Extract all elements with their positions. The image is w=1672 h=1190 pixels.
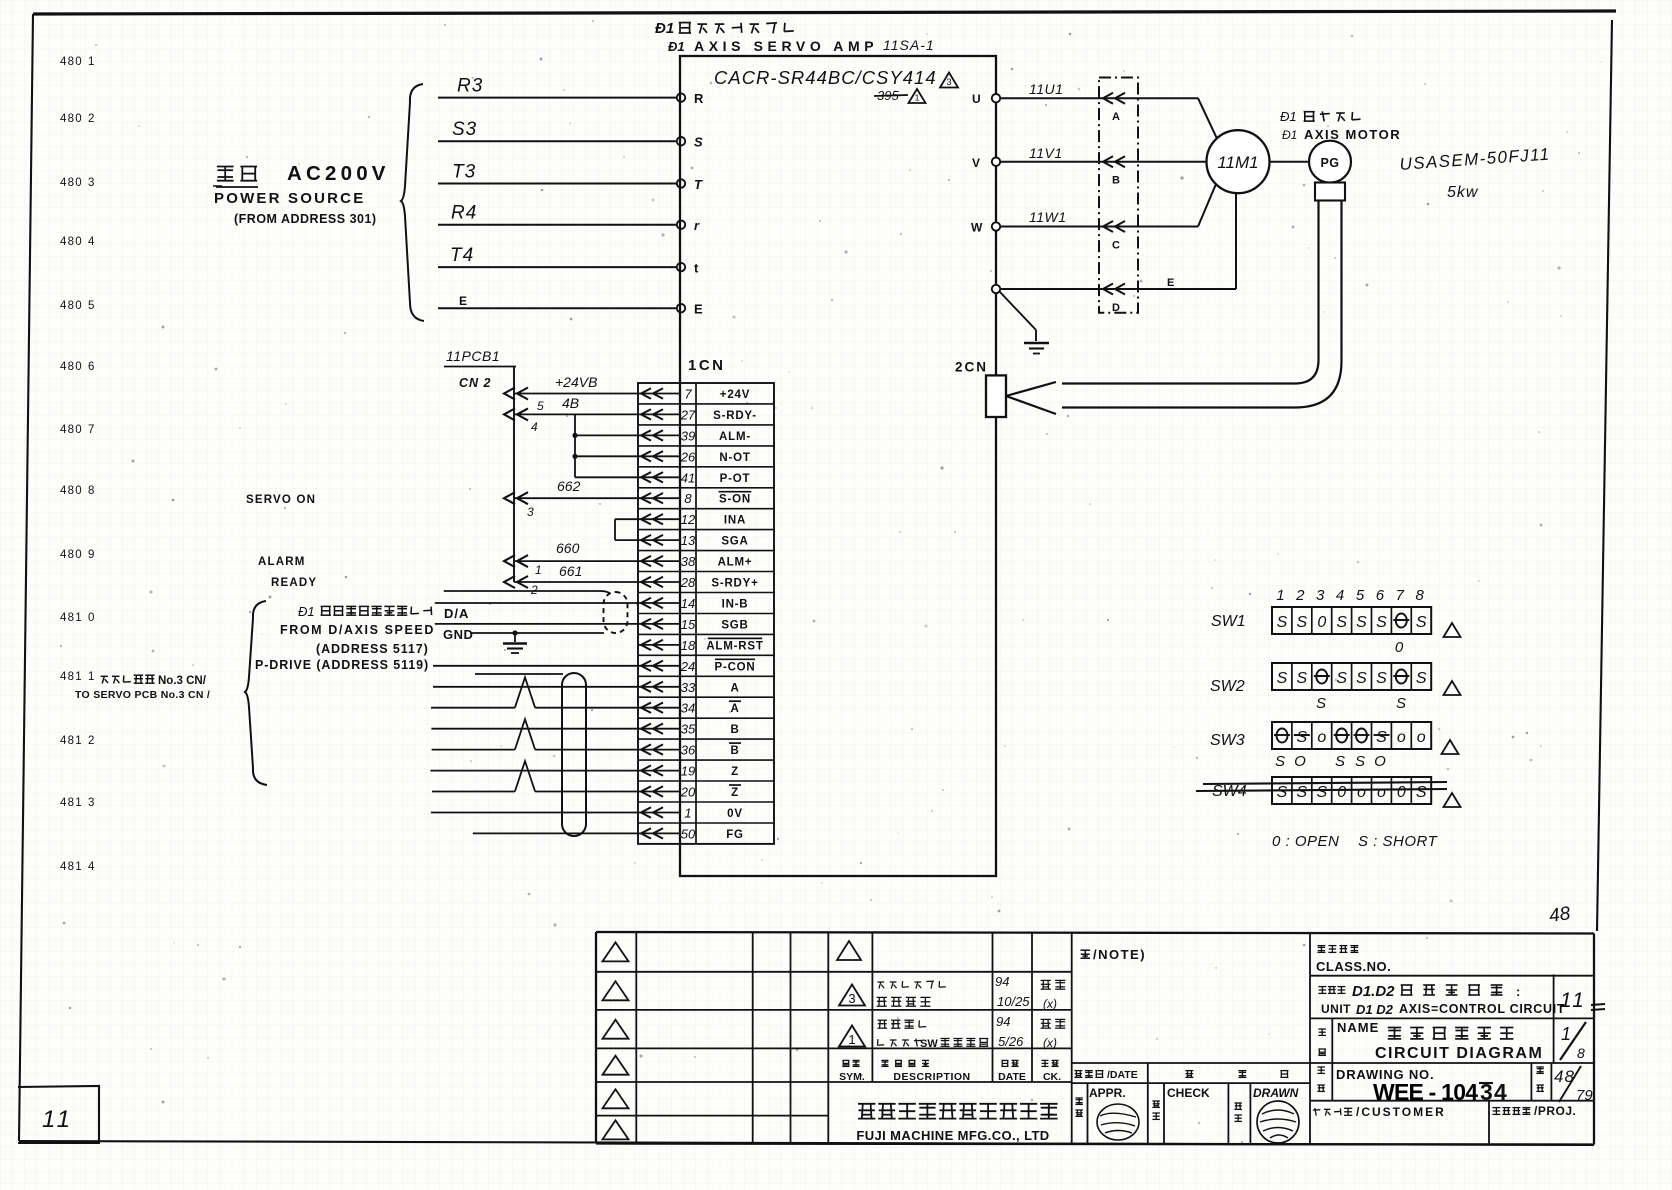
1CN signal S-ON [719,492,752,506]
1CN signal N-OT [719,452,750,464]
svg-text:S: S [1336,614,1347,631]
title D1 axis servo amp (japanese) [655,20,794,37]
svg-text:4: 4 [88,236,95,248]
svg-text:S-RDY+: S-RDY+ [711,578,758,590]
1CN row line 17 [638,738,774,740]
svg-text:o: o [1317,729,1326,746]
svg-text:8: 8 [1577,1045,1585,1061]
1CN table frame [638,383,774,844]
grid row label 4807 [60,424,94,436]
svg-text:CLASS.NO.: CLASS.NO. [1316,959,1391,974]
svg-text:13: 13 [681,533,696,548]
grid row label 4801 [60,56,94,68]
svg-text:READY: READY [271,577,317,589]
svg-text:7: 7 [684,387,692,402]
svg-text:/CUSTOMER: /CUSTOMER [1356,1105,1446,1119]
1CN row line 19 [638,780,774,782]
junction block pin A [1103,93,1125,124]
date header row [1074,1069,1288,1081]
warning triangle SW2 [1444,681,1461,695]
label 11PCB1 [444,348,516,367]
1CN signal B [729,743,741,757]
svg-text:/PROJ.: /PROJ. [1534,1104,1576,1118]
svg-text:S: S [1376,729,1387,746]
svg-text:480: 480 [60,56,83,68]
wire +24VB from CN2 to 1CN pin row 0 [504,374,638,400]
drawing no cell [1317,1067,1507,1105]
svg-text:0: 0 [1395,639,1405,656]
svg-text:UNIT: UNIT [1321,1002,1351,1016]
terminal W [971,221,1000,235]
1CN signal S-RDY- [713,410,757,422]
1CN pin 19 arrow [638,765,680,775]
svg-text:36: 36 [681,743,696,758]
1CN signal Z [731,766,739,778]
wire drain to D/A shield [444,591,610,594]
1CN signal S-RDY+ [711,578,758,590]
1CN pin 20 arrow [638,786,680,796]
svg-text:NAME: NAME [1337,1020,1379,1035]
motor 11M1 [1207,130,1270,193]
svg-text:S: S [1316,695,1328,712]
svg-text:33: 33 [681,680,696,695]
svg-text:AC200V: AC200V [287,162,390,185]
wire E to servo amp [438,294,677,308]
1CN pin number 13 [681,533,696,548]
1CN signal Z [729,785,741,799]
revision triangles left column [603,942,629,1139]
1CN row line 1 [638,403,774,405]
encoder cable to 2CN [1062,201,1342,408]
label D1 axis motor (japanese) [1280,109,1361,124]
wire S3 to servo amp [438,119,677,141]
svg-text:41: 41 [681,470,695,485]
svg-text:7: 7 [1396,587,1405,604]
svg-text:26: 26 [680,449,696,464]
svg-text:D1 D2: D1 D2 [1356,1002,1394,1017]
1CN pin number 39 [681,428,695,443]
svg-text:B: B [1112,175,1120,187]
revision row blank triangle [837,941,861,960]
1CN pin number 38 [681,554,696,569]
svg-text:480: 480 [60,485,83,497]
svg-text:R: R [694,91,704,106]
warning triangle SW4 [1444,793,1461,807]
1CN row line 9 [638,571,774,573]
terminal E motor ground [992,285,1000,293]
1CN signal A [729,701,741,715]
1CN signal 0V [727,808,743,820]
revision table header [839,1060,1061,1083]
svg-text:CN 2: CN 2 [459,376,491,390]
svg-text:T4: T4 [450,245,474,266]
shield oval encoder cable [562,673,586,836]
svg-text:20: 20 [680,785,696,800]
CN2 pin number 2 [530,583,538,597]
svg-text:W: W [971,221,983,235]
svg-text:DRAWN: DRAWN [1253,1086,1299,1100]
1CN pin 24 arrow [638,661,680,671]
svg-text:IN-B: IN-B [722,599,749,611]
svg-text:SW2: SW2 [1210,678,1245,695]
1CN pin number 1 [684,806,691,821]
1CN row line 3 [638,445,774,447]
1CN pin number 7 [684,387,692,402]
wire GND to shield [443,627,604,642]
1CN row line 20 [638,801,774,803]
strike lines over SW4 [1196,782,1447,791]
wire 662 from CN2 to 1CN pin row 5 [504,478,638,504]
wire R4 to servo amp [438,203,677,225]
wire 11U1 to motor [1000,81,1218,140]
1CN pin 26 arrow [638,451,680,461]
1CN signal ALM- [719,431,751,443]
svg-text:D/A: D/A [444,606,469,621]
svg-text:CIRCUIT DIAGRAM: CIRCUIT DIAGRAM [1375,1045,1543,1062]
svg-text:Ð1: Ð1 [1282,128,1297,142]
svg-text:Ð1: Ð1 [1280,109,1297,124]
1CN pin 18 arrow [638,640,680,650]
1CN signal SGB [721,619,748,631]
1CN row line 6 [638,508,774,510]
svg-text:o: o [1417,729,1426,746]
svg-text:POWER SOURCE: POWER SOURCE [214,190,365,207]
svg-text:4: 4 [88,861,95,873]
label FROM ADDRESS 301 [234,212,377,226]
1CN pin 38 arrow [638,556,680,566]
svg-text:11SA-1: 11SA-1 [883,37,935,53]
svg-text:0: 0 [88,612,94,624]
1CN pin 12 arrow [638,514,680,524]
svg-text:1: 1 [684,806,691,821]
1CN pin number 27 [680,407,696,422]
svg-text:E: E [1167,277,1174,289]
svg-text:CK.: CK. [1043,1071,1061,1083]
connector label 2CN [955,360,988,375]
svg-text:481: 481 [60,612,83,624]
svg-text:S: S [1277,784,1288,801]
svg-text:38: 38 [681,554,696,569]
ground symbol at GND [503,633,527,653]
switch SW4 (deleted) [1212,777,1431,804]
1CN signal ALM+ [718,557,753,569]
wire FG [473,832,638,834]
svg-text:ALM+: ALM+ [718,557,753,569]
wire 661 from CN2 to 1CN pin row 9 [504,563,638,588]
svg-text:6: 6 [1376,587,1385,604]
1CN pin number 41 [681,470,695,485]
wire 11W1 to motor [1000,184,1216,227]
svg-text:S: S [694,135,703,150]
svg-text:CHECK: CHECK [1167,1086,1210,1100]
svg-text:480: 480 [60,177,83,189]
1CN signal A [730,682,739,694]
title D1 AXIS SERVO AMP 11SA-1 [668,37,935,54]
wire D/A- to 1CN SGB [435,623,638,625]
branch bus feeding ALM- N-OT P-OT [572,414,638,477]
CN2 pin number 1 [535,563,542,577]
svg-text:480: 480 [60,361,83,373]
svg-text:(ADDRESS 5117): (ADDRESS 5117) [316,642,429,656]
svg-text:FUJI MACHINE MFG.CO., LTD: FUJI MACHINE MFG.CO., LTD [856,1128,1049,1143]
svg-text:APPR.: APPR. [1089,1086,1126,1100]
svg-text:AXIS=CONTROL CIRCUIT: AXIS=CONTROL CIRCUIT [1399,1002,1565,1016]
terminal U [972,92,1000,106]
CN2 pin number 4 [531,420,538,434]
label D1 AXIS MOTOR [1282,127,1401,142]
svg-text:S: S [1277,670,1288,687]
svg-text:94: 94 [995,974,1009,989]
svg-text:S: S [1277,614,1288,631]
svg-text:S: S [1296,614,1307,631]
wire pair Z row with twist [432,761,638,791]
terminal t servo amp [677,261,699,276]
svg-text:T3: T3 [452,162,476,183]
grid row label 4811 [60,671,94,683]
1CN row line 13 [638,654,774,656]
svg-text:S: S [1356,670,1367,687]
svg-text:INA: INA [724,515,746,527]
1CN pin 28 arrow [638,577,680,587]
1CN signal INA [724,515,746,527]
svg-text:PG: PG [1320,156,1339,170]
svg-text:No.3 CN/: No.3 CN/ [158,675,207,687]
svg-text:AXIS SERVO AMP: AXIS SERVO AMP [694,38,878,54]
1CN pin 15 arrow [638,619,680,629]
1CN row line 21 [638,822,774,824]
svg-text:5: 5 [537,399,544,413]
svg-text:9: 9 [88,549,94,561]
svg-text:1: 1 [915,93,920,103]
terminal S servo amp [677,135,703,150]
label 5kw [1447,184,1479,201]
svg-text:/NOTE): /NOTE) [1093,947,1146,962]
svg-text:11W1: 11W1 [1029,209,1067,225]
svg-text:S: S [1416,670,1427,687]
svg-text:12: 12 [681,512,696,527]
svg-text:SW3: SW3 [1210,732,1245,749]
1CN signal P-OT [720,473,751,485]
svg-text:S: S [1376,670,1387,687]
company name FUJI MACHINE MFG [856,1104,1057,1143]
node CN2 vertical bus [459,367,514,583]
svg-text:A: A [730,703,739,715]
1CN pin 33 arrow [638,682,680,692]
svg-text:Ð1: Ð1 [668,39,685,54]
svg-text:480: 480 [60,113,83,125]
proj cell [1492,1104,1576,1118]
terminal E servo amp [677,302,703,317]
1CN pin number 19 [681,764,695,779]
svg-text:3: 3 [88,177,94,189]
svg-text:0: 0 [1397,784,1406,801]
svg-text:O: O [1374,753,1388,770]
label servo PCB No.3 CN (japanese) [101,675,207,687]
svg-text:1: 1 [88,56,94,68]
customer cell [1313,1105,1446,1119]
svg-text:S: S [1356,614,1367,631]
svg-text:19: 19 [681,764,695,779]
svg-text:E: E [459,294,467,308]
1CN pin 36 arrow [638,744,680,754]
svg-text:481: 481 [60,861,83,873]
cable arrow into 2CN [1006,382,1056,414]
1CN pin number 33 [681,680,696,695]
svg-text:8: 8 [684,491,692,506]
svg-text:t: t [694,261,699,276]
1CN signal B [730,724,739,736]
1CN row line 15 [638,696,774,698]
svg-text:39: 39 [681,428,695,443]
encoder PG [1309,141,1351,183]
1CN pin number 34 [681,701,695,716]
svg-text:10/25: 10/25 [997,994,1030,1009]
svg-text:S: S [1336,670,1347,687]
1CN signal FG [726,829,744,841]
1CN row line 8 [638,550,774,552]
svg-text:7: 7 [88,424,94,436]
1CN signal P-CON [714,659,755,673]
stamp DRAWN (hanko) [1257,1101,1299,1143]
svg-text:0: 0 [1337,784,1346,801]
model CACR-SR44BC/CSY414 [714,67,937,88]
wire pair Z row [430,770,638,772]
svg-text:(FROM ADDRESS 301): (FROM ADDRESS 301) [234,212,377,226]
svg-text:S: S [1296,670,1307,687]
svg-text:480: 480 [60,424,83,436]
svg-text:S-RDY-: S-RDY- [713,410,757,422]
approval stamps row [1075,1086,1298,1121]
svg-text:R3: R3 [457,76,483,97]
1CN pin number 35 [681,722,696,737]
svg-text:o: o [1357,784,1366,801]
svg-text:3: 3 [946,77,951,87]
wire 4B from CN2 to 1CN pin row 1 [504,395,638,420]
ground symbol at terminal E [999,291,1049,354]
1CN pin number 14 [681,596,695,611]
svg-text:2: 2 [1295,587,1305,604]
wire 0V [431,812,638,814]
svg-text:5/26: 5/26 [998,1034,1024,1049]
svg-text:480: 480 [60,300,83,312]
svg-text:A: A [730,682,739,694]
svg-text:1: 1 [88,671,94,683]
svg-text:WEE - 104: WEE - 104 [1373,1079,1478,1105]
svg-text:1: 1 [1561,1024,1571,1044]
svg-text:8: 8 [1416,587,1425,604]
handwritten page 48 top right [1548,903,1572,927]
svg-text:S: S [1296,729,1307,746]
svg-text:FG: FG [726,829,744,841]
warning triangle SW1 [1444,623,1461,637]
1CN pin 35 arrow [638,724,680,734]
brace power source group [401,84,424,321]
svg-text:S: S [1416,784,1427,801]
1CN pin number 24 [680,659,695,674]
svg-text:R4: R4 [451,203,477,224]
svg-text:GND: GND [443,627,473,642]
svg-text:D1.D2: D1.D2 [1352,983,1395,1000]
svg-text:3: 3 [88,797,94,809]
svg-text::: : [1516,984,1520,999]
switch SW3 [1210,722,1431,770]
svg-text:SERVO ON: SERVO ON [246,494,316,506]
svg-text:5: 5 [88,300,94,312]
svg-text:SGA: SGA [721,536,748,548]
svg-text:TO SERVO PCB No.3 CN /: TO SERVO PCB No.3 CN / [75,689,210,701]
2CN connector body [986,375,1006,417]
label FROM D/AXIS SPEED [280,623,435,637]
1CN row line 11 [638,613,774,615]
svg-text:B: B [730,745,739,757]
svg-text:3: 3 [848,991,855,1006]
wire R3 to servo amp [438,76,677,98]
svg-text:14: 14 [681,596,695,611]
1CN pin number 15 [681,617,696,632]
revision row 3: servo amp model change [839,974,1065,1011]
terminal T servo amp [677,177,703,192]
page 1/8 handwritten [1560,1022,1586,1061]
svg-text:+24VB: +24VB [555,374,597,390]
svg-text:o: o [1397,729,1406,746]
grid row label 4812 [60,735,94,747]
1CN pin number 36 [681,743,696,758]
svg-text:DESCRIPTION: DESCRIPTION [893,1071,970,1083]
svg-text:S: S [1416,614,1427,631]
grid row label 4802 [60,113,94,125]
1CN pin number 18 [681,638,696,653]
wire P-CON from P-DRIVE [433,665,638,667]
svg-text:ALM-RST: ALM-RST [706,640,763,652]
1CN row line 5 [638,487,774,489]
svg-text:94: 94 [996,1014,1010,1029]
switch column numbers 1-8 [1276,587,1424,604]
svg-text:34: 34 [681,701,695,716]
wire E to motor frame [1000,193,1236,289]
svg-text:ALARM: ALARM [258,556,306,568]
1CN signal IN-B [722,599,749,611]
svg-text:481: 481 [60,735,83,747]
brace to servo PCB No.3 CN [245,601,267,785]
1CN row line 7 [638,529,774,531]
svg-text:0V: 0V [727,808,743,820]
svg-text:P-CON: P-CON [714,661,755,673]
svg-text:15: 15 [681,617,696,632]
svg-text:S-ON: S-ON [719,494,751,506]
terminal R servo amp [677,91,704,106]
title block frame [596,932,1594,1145]
svg-text:480: 480 [60,549,83,561]
label D1 axis speed output (japanese) [298,604,432,619]
svg-text:0 : OPEN: 0 : OPEN [1272,833,1339,850]
unit name row [1318,983,1565,1017]
svg-text:(x): (x) [1043,1036,1057,1050]
1CN pin 1 arrow [638,807,680,817]
wire pair A row [433,686,638,688]
svg-text:Z: Z [731,787,739,799]
svg-text:FROM D/AXIS SPEED: FROM D/AXIS SPEED [280,623,435,637]
wire pair B row [431,728,638,730]
wire 11V1 to motor [1000,145,1207,162]
svg-text:S3: S3 [452,119,477,140]
svg-text:35: 35 [681,722,696,737]
crossed out 395 with revision triangle 1 [874,88,926,103]
svg-text:S: S [1335,753,1347,770]
svg-text:2: 2 [88,113,94,125]
svg-text:5: 5 [1356,587,1365,604]
1CN row line 14 [638,675,774,677]
svg-text:SW: SW [920,1038,938,1050]
